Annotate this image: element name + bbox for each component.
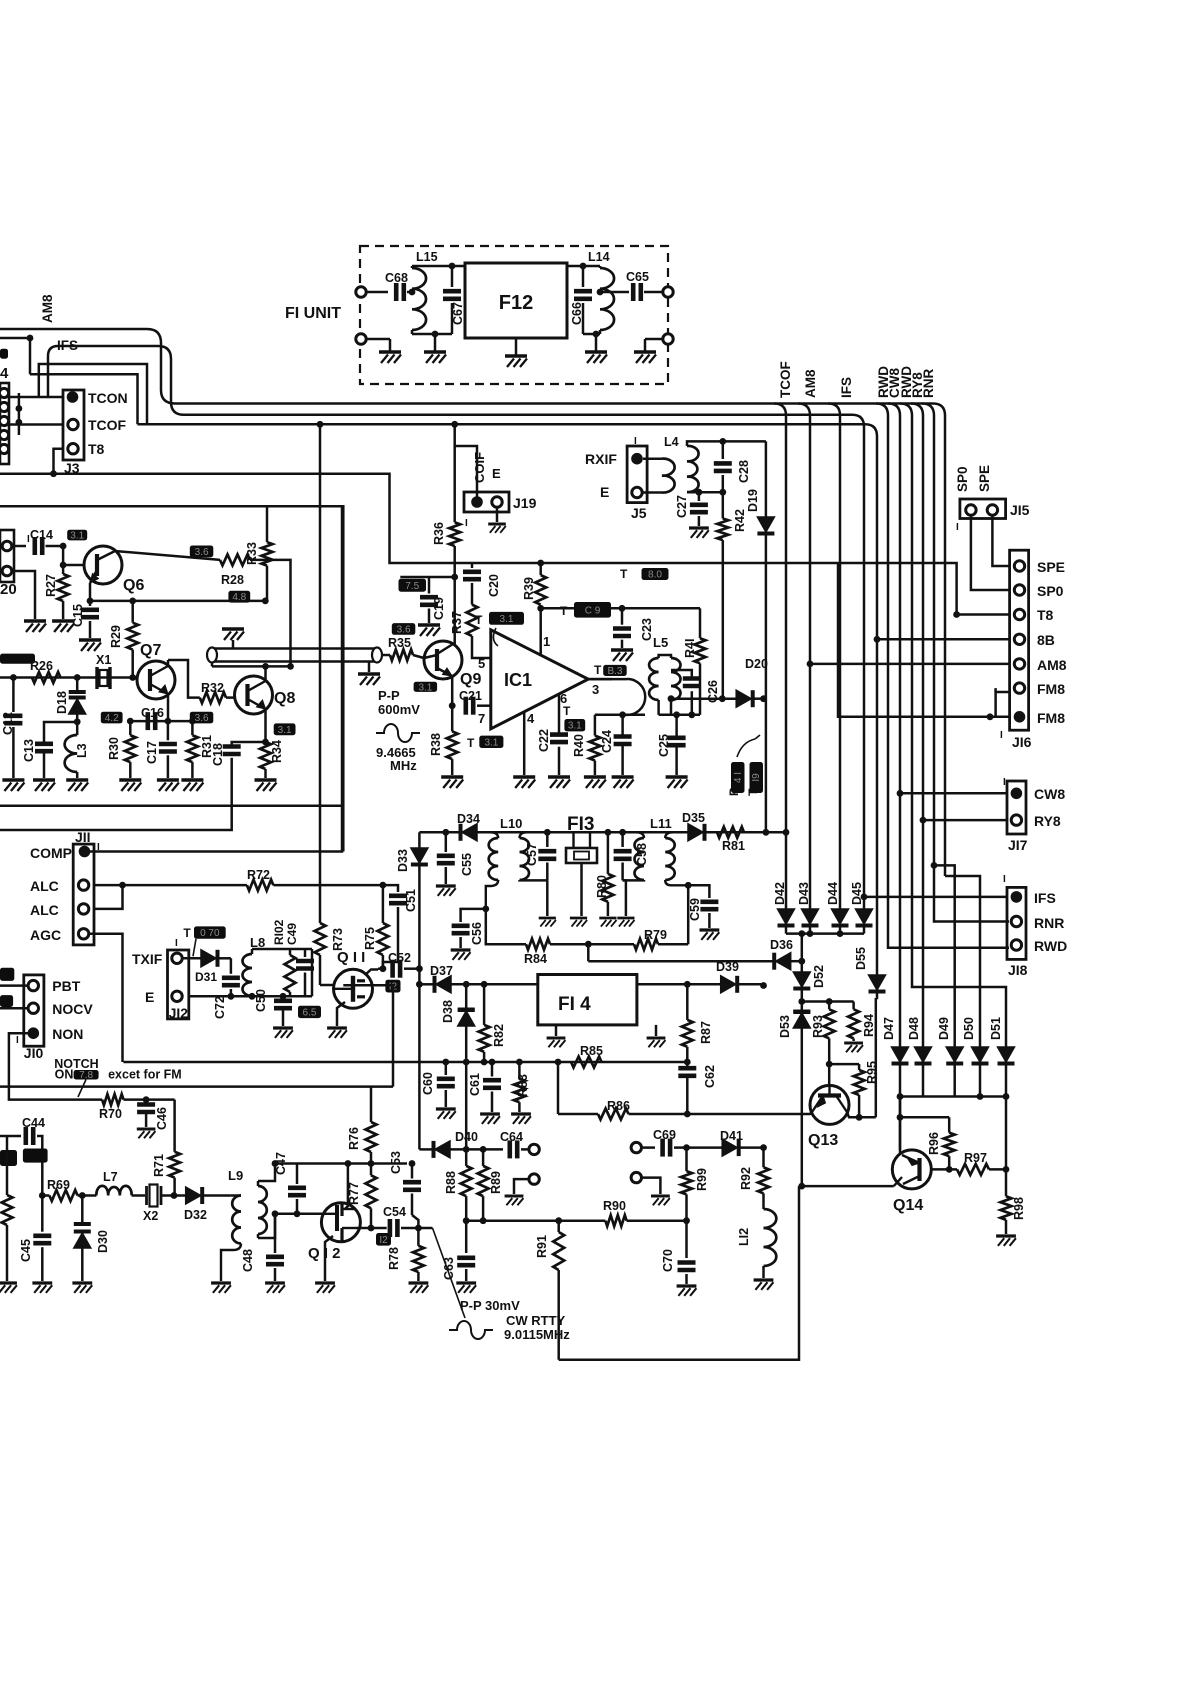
svg-text:3.1: 3.1 bbox=[500, 614, 514, 625]
svg-text:JI0: JI0 bbox=[24, 1045, 44, 1061]
wire bus fan branch x=840 bbox=[828, 404, 840, 431]
svg-text:C19: C19 bbox=[432, 597, 446, 620]
node D42 top R81 bbox=[783, 829, 790, 836]
svg-text:Q13: Q13 bbox=[808, 1132, 838, 1149]
svg-text:R30: R30 bbox=[107, 737, 121, 760]
node R89 bottom bbox=[480, 1217, 487, 1224]
svg-text:D52: D52 bbox=[812, 965, 826, 988]
terminal in1 bbox=[356, 287, 366, 297]
wire C16 line bbox=[130, 720, 192, 723]
wire center tap down bbox=[587, 944, 590, 961]
ground R40 bbox=[584, 775, 606, 779]
node R87 bottom bbox=[684, 1059, 691, 1066]
node bbox=[60, 562, 67, 569]
wire Q12 out bbox=[355, 1227, 387, 1230]
node bbox=[673, 711, 680, 718]
svg-text:R91: R91 bbox=[535, 1235, 549, 1258]
ground C46 bbox=[137, 1127, 156, 1130]
svg-text:COMP: COMP bbox=[30, 845, 72, 861]
svg-text:D19: D19 bbox=[746, 489, 760, 512]
svg-text:Q8: Q8 bbox=[274, 690, 295, 707]
svg-text:R99: R99 bbox=[695, 1168, 709, 1191]
svg-text:I: I bbox=[1003, 874, 1006, 885]
wire inner S feeder bbox=[48, 346, 184, 415]
svg-text:Q14: Q14 bbox=[893, 1197, 923, 1214]
transistor Q9 bbox=[424, 641, 462, 679]
pointer notch bbox=[78, 1080, 86, 1098]
black box under C44 bbox=[23, 1149, 48, 1163]
node IFS bbox=[861, 894, 868, 901]
svg-text:R37: R37 bbox=[450, 611, 464, 634]
svg-text:C17: C17 bbox=[145, 741, 159, 764]
wire to base node bbox=[46, 545, 64, 548]
ground Q12 bbox=[315, 1281, 335, 1284]
J16 pin bbox=[1014, 609, 1024, 619]
wire bus fan branch x=810 bbox=[798, 404, 810, 431]
svg-text:C45: C45 bbox=[19, 1239, 33, 1262]
wire NOCV stub bbox=[0, 1007, 28, 1010]
wire AGC line bbox=[123, 1061, 687, 1064]
wire Q8 emitter bbox=[264, 709, 267, 742]
resistor R26 bbox=[32, 672, 61, 683]
wire Q8 collector bbox=[264, 666, 267, 681]
F14 ground left bbox=[555, 1025, 558, 1036]
J20 pin 2 bbox=[2, 566, 12, 576]
node drop to D36 node bbox=[798, 930, 805, 937]
transistor Q13 bbox=[810, 1085, 849, 1124]
connector J4 pin 5 bbox=[0, 444, 9, 453]
svg-text:E: E bbox=[600, 484, 609, 500]
J10 pin NON bbox=[28, 1027, 40, 1039]
ground R78 bbox=[409, 1281, 429, 1284]
svg-text:D30: D30 bbox=[96, 1230, 110, 1253]
node bbox=[1003, 1093, 1010, 1100]
wire bus line 1 upper-left feeder bbox=[0, 329, 933, 404]
wire C18 rail bbox=[0, 768, 232, 830]
black value box left edge bbox=[0, 349, 8, 359]
ground C12 bbox=[2, 778, 24, 782]
svg-text:ALC: ALC bbox=[30, 878, 59, 894]
svg-text:4.8: 4.8 bbox=[232, 592, 246, 603]
node bbox=[837, 930, 844, 937]
svg-text:JI8: JI8 bbox=[1008, 962, 1028, 978]
svg-text:3.1: 3.1 bbox=[568, 721, 582, 732]
node bus3 R73 tap bbox=[317, 421, 324, 428]
wire L9 sec top riser bbox=[258, 1164, 275, 1182]
svg-text:R78: R78 bbox=[387, 1247, 401, 1270]
J16 pin bbox=[1014, 683, 1024, 693]
ground C70 bbox=[677, 1284, 697, 1287]
wire ALC R72 line bbox=[123, 884, 247, 887]
transistor Q7 bbox=[137, 661, 175, 699]
wire Q13 collector line bbox=[687, 1112, 812, 1114]
node R82 top bbox=[481, 981, 488, 988]
svg-text:FI3: FI3 bbox=[567, 814, 594, 835]
node C61 bbox=[489, 1059, 496, 1066]
svg-text:I: I bbox=[175, 938, 178, 949]
wire step feeder y364 bbox=[39, 364, 147, 424]
ground C17 bbox=[157, 778, 179, 782]
wire Q13 base bbox=[828, 1064, 831, 1086]
svg-text:D40: D40 bbox=[455, 1130, 478, 1144]
svg-text:L4: L4 bbox=[664, 435, 679, 449]
svg-text:C50: C50 bbox=[254, 989, 268, 1012]
ground C27 bbox=[689, 526, 709, 529]
wire Q14 base line bbox=[802, 1185, 894, 1188]
wire RY8 line bbox=[923, 819, 1007, 822]
svg-text:L7: L7 bbox=[103, 1170, 118, 1184]
svg-text:C22: C22 bbox=[537, 729, 551, 752]
svg-text:3.1: 3.1 bbox=[70, 531, 84, 542]
svg-text:C16: C16 bbox=[141, 706, 164, 720]
svg-text:D18: D18 bbox=[55, 691, 69, 714]
svg-text:AGC: AGC bbox=[30, 927, 61, 943]
svg-text:Q9: Q9 bbox=[460, 671, 481, 688]
wire vertical D44 feed bbox=[839, 430, 842, 909]
svg-text:E: E bbox=[492, 466, 501, 481]
ground R27 bbox=[52, 619, 74, 623]
wire secondary tap to D20 bbox=[671, 697, 736, 700]
coax shield ground right bbox=[368, 662, 371, 673]
wire anode bus bbox=[786, 932, 864, 935]
wire R32 to Q8 base bbox=[226, 696, 235, 699]
wire to terminal bbox=[521, 1148, 529, 1151]
svg-text:C 9: C 9 bbox=[585, 605, 601, 616]
wire pin3 lead bbox=[588, 678, 612, 681]
wire bus fan branch x=900 bbox=[888, 404, 900, 431]
node D20 v763 bbox=[760, 695, 767, 702]
wire diode bottom bus bbox=[900, 1095, 1006, 1098]
svg-text:D47: D47 bbox=[882, 1017, 896, 1040]
board outline box bbox=[0, 506, 343, 851]
ground C25 bbox=[666, 775, 688, 779]
wire F13 top line bbox=[419, 831, 786, 834]
pointer curl bbox=[493, 628, 498, 646]
crystal F13 bbox=[572, 832, 574, 848]
J11 pin ALC2 bbox=[78, 904, 88, 914]
wire D49 feed bbox=[934, 865, 955, 1047]
node C62 bottom bbox=[684, 1111, 691, 1118]
wire tank right side bbox=[311, 949, 314, 996]
wire J4 vertical link bbox=[18, 393, 21, 435]
inductor L5 secondary bbox=[649, 658, 658, 700]
FI unit dashed enclosure bbox=[360, 246, 668, 384]
node R95 bottom bbox=[856, 1114, 863, 1121]
svg-text:CW8: CW8 bbox=[1034, 786, 1065, 802]
wire AGC drop bbox=[90, 934, 123, 1062]
terminal in2 bbox=[356, 334, 366, 344]
svg-text:X2: X2 bbox=[143, 1209, 158, 1223]
svg-text:RWD: RWD bbox=[1034, 938, 1067, 954]
node R80 top bbox=[605, 829, 612, 836]
wire R79 left bbox=[588, 943, 634, 946]
wire J19 feed bbox=[455, 446, 477, 497]
ground C22 bbox=[548, 775, 570, 779]
black value box R4 bbox=[731, 762, 745, 793]
node R76 bottom bbox=[368, 1160, 375, 1167]
svg-text:IFS: IFS bbox=[1034, 890, 1056, 906]
J17 pin CW8 bbox=[1011, 788, 1023, 800]
svg-text:D42: D42 bbox=[773, 882, 787, 905]
wire primary bottom rail bbox=[595, 714, 645, 717]
svg-text:C28: C28 bbox=[737, 460, 751, 483]
node pin1 line bbox=[537, 605, 544, 612]
svg-text:R33: R33 bbox=[245, 542, 259, 565]
wire bias rail y601 bbox=[90, 600, 265, 603]
wire to C65 bbox=[600, 291, 629, 294]
wire R90 line bbox=[466, 1219, 605, 1222]
wire Q11 source to ground bbox=[337, 1002, 345, 1026]
node R42 line joins bbox=[719, 695, 726, 702]
svg-text:D44: D44 bbox=[826, 882, 840, 905]
wire bus line 2 bbox=[184, 414, 852, 417]
svg-text:7: 7 bbox=[478, 711, 485, 726]
black box left of J10 b bbox=[0, 995, 13, 1007]
svg-text:D32: D32 bbox=[184, 1208, 207, 1222]
wire J15 SPE to J16 bbox=[992, 515, 1009, 566]
svg-text:C48: C48 bbox=[241, 1249, 255, 1272]
black value box 3.1 pin6 bbox=[564, 719, 585, 731]
transistor Q8 bbox=[235, 676, 273, 714]
svg-text:B.3: B.3 bbox=[607, 666, 622, 677]
wire Q13 emitter to R95 bbox=[847, 1112, 876, 1117]
coax cable to Q9 bbox=[212, 647, 377, 650]
svg-text:IC1: IC1 bbox=[504, 670, 532, 690]
connector J12 bbox=[168, 950, 189, 1019]
svg-text:T: T bbox=[475, 613, 483, 627]
node R99 bottom bbox=[683, 1217, 690, 1224]
node C54 out bbox=[415, 1225, 422, 1232]
node C50 bbox=[280, 993, 287, 1000]
black value box 6.5 bbox=[298, 1006, 321, 1018]
svg-text:C72: C72 bbox=[213, 996, 227, 1019]
transistor Q6 bbox=[84, 546, 122, 584]
svg-text:FI 4: FI 4 bbox=[558, 994, 591, 1015]
node C55 bbox=[442, 829, 449, 836]
wire gate bbox=[320, 984, 334, 987]
node R95 rail bbox=[826, 1061, 833, 1068]
svg-text:RXIF: RXIF bbox=[585, 451, 617, 467]
svg-text:C53: C53 bbox=[389, 1151, 403, 1174]
svg-text:0 70: 0 70 bbox=[200, 928, 220, 939]
node C21 bbox=[449, 702, 456, 709]
ground bbox=[24, 619, 46, 623]
wire lower bus y1086 bbox=[0, 1085, 371, 1088]
node C47 bottom bbox=[294, 1210, 301, 1217]
svg-text:3.6: 3.6 bbox=[195, 547, 209, 558]
svg-text:R89: R89 bbox=[489, 1171, 503, 1194]
J16 pin bbox=[1014, 659, 1024, 669]
node ALC bbox=[119, 882, 126, 889]
node R83 bbox=[516, 1059, 523, 1066]
J16 pin bbox=[1014, 634, 1024, 644]
svg-text:4: 4 bbox=[0, 365, 9, 382]
J19 pin1 bbox=[471, 496, 483, 508]
svg-text:JI2: JI2 bbox=[169, 1005, 189, 1021]
connector J18 bbox=[1007, 887, 1026, 959]
connector J4 partial at left edge bbox=[0, 383, 9, 464]
wire L4 top to D19 bbox=[723, 440, 766, 443]
wire C56 to R84 bbox=[486, 909, 526, 944]
svg-text:FM8: FM8 bbox=[1037, 710, 1065, 726]
svg-text:D51: D51 bbox=[989, 1017, 1003, 1040]
node C69 out bbox=[683, 1144, 690, 1151]
svg-text:8.0: 8.0 bbox=[648, 570, 662, 581]
ground F12 bbox=[515, 338, 518, 356]
wire pin1 to C14 bbox=[12, 545, 26, 548]
wire T8 drop bbox=[54, 449, 64, 474]
wire box corner drop bbox=[343, 985, 393, 1086]
svg-text:D36: D36 bbox=[770, 938, 793, 952]
wire NON wire bbox=[9, 1033, 102, 1099]
svg-text:R36: R36 bbox=[432, 522, 446, 545]
wire IFS line bbox=[864, 896, 1007, 899]
node R84 R79 bbox=[585, 941, 592, 948]
svg-text:R77: R77 bbox=[347, 1182, 361, 1205]
node R29 X1 line bbox=[129, 674, 136, 681]
svg-text:I: I bbox=[634, 436, 637, 447]
wire vertical C52 node to D40 bbox=[418, 969, 421, 1150]
svg-text:I: I bbox=[956, 522, 959, 533]
wire bus line 1 end fillet down bbox=[933, 404, 945, 877]
wire pin1 lead bbox=[539, 608, 542, 655]
partial resistor left edge bbox=[2, 1195, 13, 1225]
node X2 R71 bbox=[171, 1192, 178, 1199]
wire C57 ground bbox=[546, 880, 549, 916]
svg-text:C46: C46 bbox=[155, 1107, 169, 1130]
node C53 drain rail bbox=[409, 1160, 416, 1167]
node C48 bbox=[272, 1210, 279, 1217]
wire long line y473.7 bbox=[0, 474, 1009, 615]
svg-text:NOCV: NOCV bbox=[52, 1001, 93, 1017]
node L10 C56 bbox=[482, 906, 489, 913]
node R91 bbox=[555, 1217, 562, 1224]
wire D51 to R97 node bbox=[1005, 1097, 1008, 1170]
svg-text:R27: R27 bbox=[44, 574, 58, 597]
svg-text:C13: C13 bbox=[22, 739, 36, 762]
inductor L9 secondary bbox=[258, 1186, 267, 1234]
ground C15 bbox=[79, 638, 101, 642]
svg-text:R82: R82 bbox=[492, 1024, 506, 1047]
connector J4 pin 1 bbox=[0, 388, 9, 397]
svg-text:L11: L11 bbox=[650, 816, 672, 831]
svg-text:R38: R38 bbox=[429, 733, 443, 756]
J15 pin SP0 bbox=[966, 505, 976, 515]
black box left of J10 a bbox=[0, 968, 14, 981]
node D37 line bbox=[416, 981, 423, 988]
wire R73 riser from bus3 bbox=[319, 424, 322, 923]
svg-text:L14: L14 bbox=[588, 250, 610, 264]
wire COMP line bbox=[90, 506, 342, 851]
black value box long left bbox=[0, 654, 35, 664]
ground R34 bbox=[255, 778, 277, 782]
ground C19 bbox=[418, 623, 440, 627]
wire 8B node bbox=[874, 636, 881, 643]
svg-text:D53: D53 bbox=[778, 1015, 792, 1038]
node RY8 bbox=[920, 817, 927, 824]
connector J5 bbox=[627, 446, 647, 503]
black value box 3.6 second bbox=[190, 712, 214, 724]
J20 pin 1 bbox=[2, 541, 12, 551]
wire TCOF line bbox=[9, 423, 63, 426]
node bus1-end D50 tap corner bbox=[945, 876, 980, 1047]
wire R36 line from bus3 bbox=[453, 424, 456, 522]
svg-text:RNR: RNR bbox=[921, 369, 936, 398]
svg-text:I9: I9 bbox=[751, 773, 762, 782]
svg-text:8B: 8B bbox=[1037, 632, 1055, 648]
node C58 top bbox=[619, 829, 626, 836]
svg-text:R75: R75 bbox=[363, 927, 377, 950]
svg-text:R84: R84 bbox=[524, 952, 547, 966]
svg-text:R90: R90 bbox=[603, 1199, 626, 1213]
J18 pin RWD bbox=[1011, 940, 1021, 950]
connector J11 bbox=[73, 844, 94, 945]
node R86 drop bbox=[555, 1059, 562, 1066]
svg-text:D20: D20 bbox=[745, 657, 768, 671]
svg-text:J5: J5 bbox=[631, 505, 647, 521]
J3 pin TCON bbox=[67, 391, 79, 403]
svg-text:C61: C61 bbox=[468, 1073, 482, 1096]
node bbox=[807, 930, 814, 937]
svg-text:AM8: AM8 bbox=[803, 369, 818, 398]
wire R37 to pin5 bbox=[472, 636, 491, 658]
wire vertical FM8 feed bbox=[838, 563, 1009, 717]
wire tank bottom rail bbox=[189, 995, 312, 998]
node C52 left bbox=[380, 965, 387, 972]
svg-text:SPE: SPE bbox=[977, 465, 992, 492]
ground C57 bbox=[539, 917, 556, 920]
svg-text:3.1: 3.1 bbox=[484, 737, 498, 748]
svg-text:D33: D33 bbox=[396, 849, 410, 872]
wire D20 out bbox=[753, 697, 763, 700]
node D38 bottom bbox=[463, 1146, 470, 1153]
node C46 bbox=[143, 1096, 150, 1103]
svg-text:Q6: Q6 bbox=[123, 577, 144, 594]
wire AM8 to J16 bbox=[810, 663, 1009, 666]
filter F12 bbox=[465, 263, 567, 338]
svg-text:ALC: ALC bbox=[30, 902, 59, 918]
wire Q12 source gnd bbox=[325, 1236, 333, 1281]
node C28 bottom bbox=[719, 489, 726, 496]
wire gate line bbox=[258, 1214, 275, 1238]
terminal circle 2 bbox=[529, 1174, 539, 1184]
black value box 4.2 bbox=[101, 712, 123, 724]
svg-text:7.5: 7.5 bbox=[405, 581, 419, 592]
wire L11 sec bottom to R79 bbox=[687, 885, 690, 944]
node C16 right bbox=[165, 718, 172, 725]
wire base into Q6 bbox=[63, 564, 84, 567]
node D39 out on v763 bbox=[760, 982, 767, 989]
wire vertical TCOF to D42 bbox=[785, 430, 788, 909]
ground C48 bbox=[265, 1281, 285, 1284]
wire bus3 corner down to 8B bbox=[865, 424, 877, 639]
svg-text:R88: R88 bbox=[444, 1171, 458, 1194]
wire bottom node right tank bbox=[583, 333, 600, 336]
connector J4 pin 2 bbox=[0, 402, 9, 411]
node bbox=[897, 1093, 904, 1100]
svg-text:JI7: JI7 bbox=[1008, 837, 1028, 853]
wire R93/R94 rail bbox=[802, 1000, 854, 1003]
svg-text:T: T bbox=[467, 736, 475, 750]
node R39 top bbox=[537, 560, 544, 567]
connector J3 bbox=[63, 390, 84, 460]
wire TCON line bbox=[9, 396, 63, 399]
node R36 bottom bbox=[451, 574, 458, 581]
wire base drop bbox=[62, 546, 65, 565]
inductor L4 secondary bbox=[687, 446, 699, 492]
node Q14 base bbox=[798, 1183, 805, 1190]
svg-text:R76: R76 bbox=[347, 1127, 361, 1150]
